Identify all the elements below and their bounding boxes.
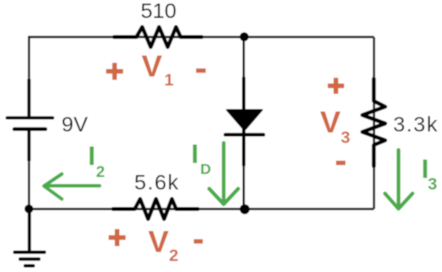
svg-text:V: V — [142, 48, 163, 83]
label V1 plus — [106, 63, 123, 80]
wire right rail — [373, 37, 375, 209]
ground — [15, 209, 45, 266]
resistor R1 510 — [114, 27, 201, 47]
svg-text:510: 510 — [141, 0, 177, 23]
wire top from battery to node A and right corner — [29, 37, 374, 116]
label V3 plus — [328, 78, 344, 94]
svg-text:2: 2 — [169, 246, 178, 265]
svg-text:5.6k: 5.6k — [134, 171, 179, 195]
svg-text:2: 2 — [96, 164, 105, 181]
node A top junction dot — [240, 32, 249, 41]
resistor R2 5.6k — [113, 199, 197, 219]
svg-text:3: 3 — [341, 128, 350, 147]
svg-text:9V: 9V — [62, 112, 89, 136]
svg-text:V: V — [320, 104, 341, 139]
wire bottom rail — [29, 208, 374, 210]
current arrow I2 — [44, 174, 100, 199]
label V2 plus — [109, 229, 126, 246]
wire diode branch — [243, 37, 245, 209]
svg-text:I: I — [191, 139, 199, 169]
svg-text:D: D — [200, 161, 211, 178]
resistor R3 3.3k — [362, 79, 385, 166]
svg-text:3.3k: 3.3k — [393, 112, 438, 136]
svg-text:I: I — [88, 141, 96, 171]
current arrow I3 — [385, 150, 413, 209]
svg-text:V: V — [148, 224, 169, 259]
node B bottom junction dot — [240, 204, 250, 214]
battery V 9V — [7, 79, 52, 161]
diode D1 — [225, 77, 263, 166]
svg-text:3: 3 — [428, 175, 437, 194]
label V3 minus — [336, 161, 346, 165]
svg-text:1: 1 — [164, 71, 173, 90]
node C bottom-left junction dot — [25, 205, 34, 214]
label V2 minus — [194, 239, 203, 243]
label V1 minus — [196, 68, 206, 72]
wire left rail below battery — [28, 130, 30, 209]
current arrow ID — [209, 143, 238, 204]
